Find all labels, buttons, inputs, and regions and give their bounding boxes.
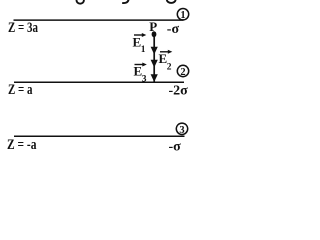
svg-text:1: 1 xyxy=(180,10,185,21)
label E2 vector xyxy=(159,50,173,73)
label E1 vector xyxy=(133,33,147,55)
svg-text:Z = 3a: Z = 3a xyxy=(8,20,38,36)
label E3 vector xyxy=(134,63,147,85)
node circle 1 xyxy=(177,9,188,22)
svg-text:Z = a: Z = a xyxy=(8,82,33,98)
svg-text:Z = -a: Z = -a xyxy=(7,137,37,153)
plane 2 line (Z=a) xyxy=(14,81,184,83)
svg-text:-σ: -σ xyxy=(167,22,180,37)
svg-text:1: 1 xyxy=(141,45,146,55)
svg-text:-σ: -σ xyxy=(169,140,182,155)
point P dot xyxy=(152,31,157,37)
plane 1 line (Z=3a) xyxy=(14,19,184,21)
cut-off descender glyph left xyxy=(77,0,84,4)
arrowhead E2 xyxy=(151,60,158,68)
svg-text:2: 2 xyxy=(167,63,172,73)
cut-off descender glyph right xyxy=(167,0,176,3)
svg-text:-2σ: -2σ xyxy=(169,84,189,99)
plane 3 line (Z=-a) xyxy=(14,135,185,137)
svg-text:3: 3 xyxy=(179,125,184,136)
node circle 2 xyxy=(177,65,188,78)
cut-off descender hook middle xyxy=(122,0,128,3)
arrowhead E3 xyxy=(151,74,158,82)
field arrow shaft xyxy=(153,37,155,82)
svg-text:2: 2 xyxy=(180,67,185,78)
node circle 3 xyxy=(176,123,187,136)
arrowhead E1 xyxy=(151,47,158,55)
